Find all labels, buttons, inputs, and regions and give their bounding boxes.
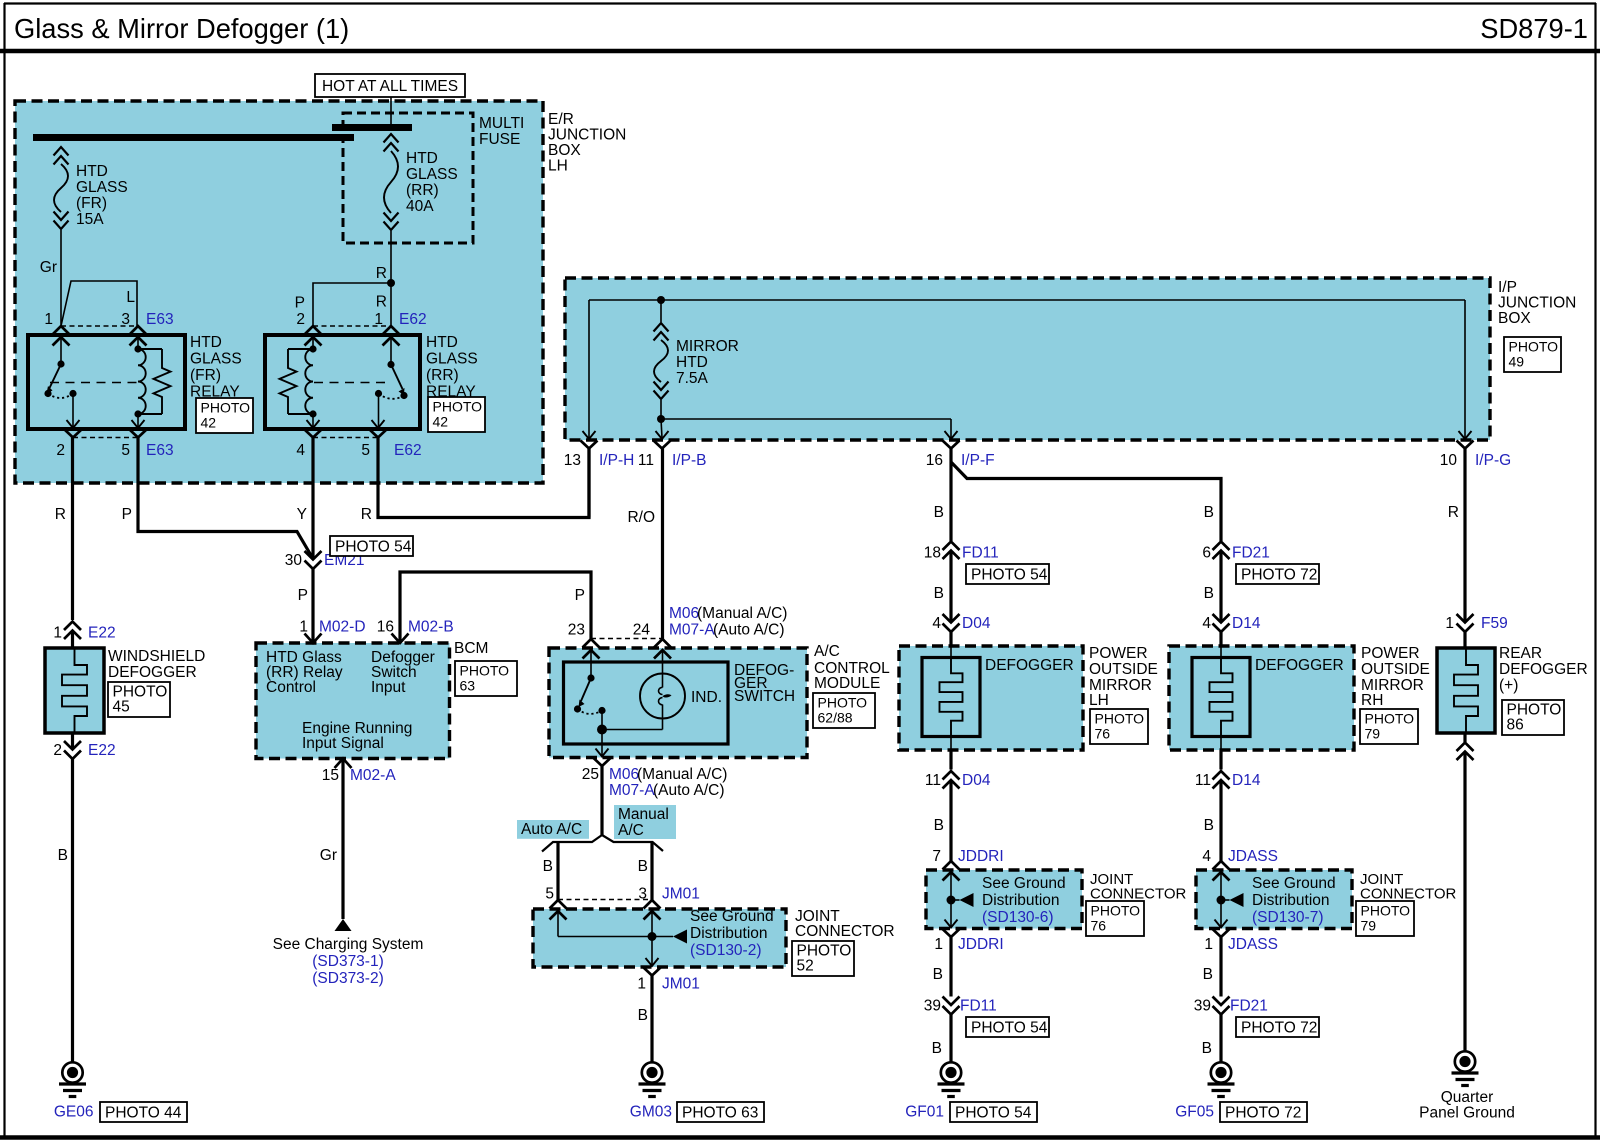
svg-text:39: 39 <box>1194 998 1211 1015</box>
svg-text:B: B <box>58 847 68 864</box>
svg-text:Distribution: Distribution <box>690 925 768 942</box>
svg-text:M02-D: M02-D <box>319 619 366 636</box>
svg-text:R: R <box>376 265 387 282</box>
svg-text:E22: E22 <box>88 625 116 642</box>
svg-text:GLASS: GLASS <box>190 351 242 368</box>
svg-text:PHOTO: PHOTO <box>460 663 510 679</box>
svg-text:Distribution: Distribution <box>982 892 1060 909</box>
svg-text:DEFOGGER: DEFOGGER <box>1255 657 1344 674</box>
svg-text:PHOTO 63: PHOTO 63 <box>682 1105 758 1122</box>
svg-text:(RR): (RR) <box>406 182 439 199</box>
svg-text:(SD373-1): (SD373-1) <box>312 953 384 970</box>
svg-text:M07-A: M07-A <box>609 782 655 799</box>
svg-text:5: 5 <box>121 442 130 459</box>
svg-text:52: 52 <box>797 958 814 975</box>
svg-text:PHOTO 54: PHOTO 54 <box>971 567 1048 584</box>
svg-text:PHOTO: PHOTO <box>818 695 868 711</box>
svg-text:PHOTO 72: PHOTO 72 <box>1225 1105 1301 1122</box>
svg-text:39: 39 <box>924 998 941 1015</box>
svg-text:PHOTO 54: PHOTO 54 <box>955 1105 1032 1122</box>
svg-text:1: 1 <box>299 619 308 636</box>
svg-text:CONNECTOR: CONNECTOR <box>795 923 895 940</box>
svg-text:(Auto A/C): (Auto A/C) <box>653 782 725 799</box>
svg-text:JDDRI: JDDRI <box>958 848 1004 865</box>
svg-text:2: 2 <box>56 442 65 459</box>
svg-text:1: 1 <box>1445 615 1454 632</box>
svg-text:P: P <box>575 587 585 604</box>
svg-text:PHOTO 54: PHOTO 54 <box>335 539 412 556</box>
svg-text:F59: F59 <box>1481 615 1508 632</box>
svg-text:POWER: POWER <box>1361 645 1420 662</box>
svg-text:B: B <box>638 858 648 875</box>
svg-text:PHOTO 44: PHOTO 44 <box>105 1105 182 1122</box>
svg-text:LH: LH <box>548 158 568 175</box>
svg-text:E62: E62 <box>399 311 427 328</box>
svg-text:1: 1 <box>53 625 62 642</box>
svg-text:GE06: GE06 <box>54 1104 94 1121</box>
svg-text:16: 16 <box>926 452 943 469</box>
svg-text:Distribution: Distribution <box>1252 892 1330 909</box>
svg-text:5: 5 <box>545 886 554 903</box>
svg-text:HTD: HTD <box>406 150 438 167</box>
svg-text:See Ground: See Ground <box>1252 875 1336 892</box>
svg-text:R: R <box>1448 504 1459 521</box>
svg-text:Glass & Mirror Defogger (1): Glass & Mirror Defogger (1) <box>14 13 349 44</box>
svg-text:Quarter: Quarter <box>1441 1089 1494 1106</box>
svg-text:BCM: BCM <box>454 640 488 657</box>
svg-text:POWER: POWER <box>1089 645 1148 662</box>
svg-text:79: 79 <box>1361 918 1377 934</box>
svg-text:DEFOGGER: DEFOGGER <box>1499 661 1588 678</box>
svg-text:(SD130-7): (SD130-7) <box>1252 909 1324 926</box>
svg-text:4: 4 <box>1202 615 1211 632</box>
svg-text:Auto A/C: Auto A/C <box>521 821 582 838</box>
svg-text:FD11: FD11 <box>960 998 997 1015</box>
svg-text:D04: D04 <box>962 615 991 632</box>
svg-text:GM03: GM03 <box>630 1104 672 1121</box>
svg-text:(FR): (FR) <box>76 195 107 212</box>
svg-text:PHOTO 54: PHOTO 54 <box>971 1020 1048 1037</box>
svg-text:B: B <box>1204 504 1214 521</box>
svg-text:JUNCTION: JUNCTION <box>548 127 626 144</box>
svg-text:GLASS: GLASS <box>426 351 478 368</box>
svg-text:HTD: HTD <box>76 163 108 180</box>
svg-text:Y: Y <box>297 506 307 523</box>
svg-text:I/P: I/P <box>1498 279 1517 296</box>
svg-text:CONNECTOR: CONNECTOR <box>1090 886 1187 903</box>
svg-text:1: 1 <box>1204 936 1213 953</box>
svg-text:Manual: Manual <box>618 806 669 823</box>
svg-text:4: 4 <box>296 442 305 459</box>
svg-text:B: B <box>543 858 553 875</box>
svg-text:LH: LH <box>1089 692 1109 709</box>
svg-text:JDDRI: JDDRI <box>958 936 1004 953</box>
svg-text:I/P-G: I/P-G <box>1475 452 1511 469</box>
svg-text:HTD: HTD <box>190 334 222 351</box>
svg-text:M07-A: M07-A <box>669 622 715 639</box>
svg-text:MULTI: MULTI <box>479 115 524 132</box>
svg-text:Control: Control <box>266 679 316 696</box>
svg-text:M06: M06 <box>609 766 639 783</box>
svg-text:BOX: BOX <box>1498 310 1531 327</box>
svg-text:HTD: HTD <box>426 334 458 351</box>
svg-text:WINDSHIELD: WINDSHIELD <box>108 648 205 665</box>
svg-text:R: R <box>361 506 372 523</box>
svg-text:FD11: FD11 <box>962 545 999 562</box>
svg-text:PHOTO 72: PHOTO 72 <box>1241 1020 1317 1037</box>
svg-text:PHOTO: PHOTO <box>1365 711 1415 727</box>
svg-text:GF05: GF05 <box>1175 1104 1214 1121</box>
svg-text:(SD130-2): (SD130-2) <box>690 942 762 959</box>
svg-text:2: 2 <box>53 742 62 759</box>
svg-text:3: 3 <box>121 311 130 328</box>
svg-text:PHOTO 72: PHOTO 72 <box>1241 567 1317 584</box>
svg-text:E63: E63 <box>146 442 174 459</box>
svg-text:13: 13 <box>564 452 581 469</box>
svg-text:MIRROR: MIRROR <box>676 338 739 355</box>
svg-text:40A: 40A <box>406 198 434 215</box>
svg-text:M02-A: M02-A <box>350 767 396 784</box>
svg-text:2: 2 <box>296 311 305 328</box>
svg-text:DEFOGGER: DEFOGGER <box>985 657 1074 674</box>
svg-text:E22: E22 <box>88 742 116 759</box>
svg-text:JDASS: JDASS <box>1228 848 1278 865</box>
svg-text:(Manual A/C): (Manual A/C) <box>637 766 727 783</box>
svg-text:SD879-1: SD879-1 <box>1480 13 1588 44</box>
svg-text:76: 76 <box>1091 918 1107 934</box>
svg-text:P: P <box>298 587 308 604</box>
svg-text:(SD373-2): (SD373-2) <box>312 970 384 987</box>
svg-text:See Ground: See Ground <box>690 908 774 925</box>
svg-text:(Auto A/C): (Auto A/C) <box>713 622 785 639</box>
svg-text:16: 16 <box>377 619 394 636</box>
svg-text:HTD: HTD <box>676 354 708 371</box>
svg-text:PHOTO: PHOTO <box>1361 903 1411 919</box>
svg-text:49: 49 <box>1509 354 1525 370</box>
svg-text:(RR): (RR) <box>426 367 459 384</box>
svg-text:B: B <box>1204 585 1214 602</box>
svg-text:BOX: BOX <box>548 142 581 159</box>
svg-text:M02-B: M02-B <box>408 619 454 636</box>
svg-text:R: R <box>55 506 66 523</box>
svg-text:See Charging System: See Charging System <box>273 936 424 953</box>
svg-text:SWITCH: SWITCH <box>734 688 795 705</box>
svg-text:I/P-F: I/P-F <box>961 452 995 469</box>
svg-text:P: P <box>295 295 305 312</box>
svg-text:B: B <box>934 504 944 521</box>
svg-text:76: 76 <box>1095 726 1111 742</box>
svg-text:(SD130-6): (SD130-6) <box>982 909 1054 926</box>
svg-text:P: P <box>122 506 132 523</box>
svg-text:GLASS: GLASS <box>406 166 458 183</box>
svg-text:IND.: IND. <box>691 689 722 706</box>
svg-text:1: 1 <box>374 311 383 328</box>
svg-text:E/R: E/R <box>548 111 574 128</box>
svg-text:4: 4 <box>1202 848 1211 865</box>
svg-text:CONNECTOR: CONNECTOR <box>1360 886 1457 903</box>
svg-text:E63: E63 <box>146 311 174 328</box>
svg-text:FD21: FD21 <box>1232 545 1270 562</box>
svg-text:M06: M06 <box>669 605 699 622</box>
svg-text:4: 4 <box>932 615 941 632</box>
svg-text:(FR): (FR) <box>190 367 221 384</box>
svg-text:JM01: JM01 <box>662 976 700 993</box>
svg-text:JUNCTION: JUNCTION <box>1498 295 1576 312</box>
svg-text:24: 24 <box>633 622 651 639</box>
svg-text:HOT AT ALL TIMES: HOT AT ALL TIMES <box>322 78 458 95</box>
svg-text:PHOTO: PHOTO <box>433 399 483 415</box>
svg-text:REAR: REAR <box>1499 645 1542 662</box>
svg-text:62/88: 62/88 <box>818 710 853 726</box>
svg-text:7.5A: 7.5A <box>676 370 709 387</box>
svg-text:86: 86 <box>1507 717 1524 734</box>
svg-text:RH: RH <box>1361 692 1383 709</box>
svg-text:1: 1 <box>934 936 943 953</box>
svg-text:OUTSIDE: OUTSIDE <box>1089 661 1158 678</box>
svg-text:23: 23 <box>568 622 585 639</box>
svg-text:PHOTO: PHOTO <box>1509 339 1559 355</box>
svg-text:B: B <box>932 1040 942 1057</box>
svg-text:B: B <box>1202 1040 1212 1057</box>
svg-text:A/C: A/C <box>618 822 644 839</box>
svg-text:5: 5 <box>361 442 370 459</box>
svg-text:Gr: Gr <box>40 259 57 276</box>
svg-text:GF01: GF01 <box>905 1104 944 1121</box>
svg-text:15A: 15A <box>76 211 104 228</box>
svg-text:(+): (+) <box>1499 677 1518 694</box>
svg-text:R/O: R/O <box>627 509 655 526</box>
svg-text:1: 1 <box>44 311 53 328</box>
svg-text:25: 25 <box>582 766 599 783</box>
svg-text:10: 10 <box>1440 452 1458 469</box>
svg-text:7: 7 <box>932 848 941 865</box>
svg-text:Panel Ground: Panel Ground <box>1419 1105 1515 1122</box>
svg-text:JM01: JM01 <box>662 886 700 903</box>
svg-text:D14: D14 <box>1232 615 1261 632</box>
svg-text:GLASS: GLASS <box>76 179 128 196</box>
svg-text:1: 1 <box>637 976 646 993</box>
svg-text:18: 18 <box>924 545 941 562</box>
svg-text:See Ground: See Ground <box>982 875 1066 892</box>
svg-text:B: B <box>1204 817 1214 834</box>
svg-text:11: 11 <box>638 452 654 469</box>
svg-text:JDASS: JDASS <box>1228 936 1278 953</box>
svg-text:11: 11 <box>925 772 941 789</box>
svg-text:3: 3 <box>638 886 647 903</box>
svg-text:45: 45 <box>113 699 130 716</box>
svg-text:Input: Input <box>371 679 406 696</box>
svg-text:FD21: FD21 <box>1230 998 1268 1015</box>
svg-text:L: L <box>126 289 135 306</box>
svg-text:OUTSIDE: OUTSIDE <box>1361 661 1430 678</box>
svg-text:A/C: A/C <box>814 643 840 660</box>
svg-text:I/P-H: I/P-H <box>599 452 634 469</box>
svg-text:MODULE: MODULE <box>814 675 880 692</box>
svg-text:42: 42 <box>201 415 217 431</box>
svg-text:PHOTO: PHOTO <box>1095 711 1145 727</box>
svg-text:PHOTO: PHOTO <box>201 400 251 416</box>
svg-text:B: B <box>934 585 944 602</box>
svg-text:63: 63 <box>460 678 476 694</box>
svg-text:15: 15 <box>322 767 339 784</box>
svg-text:D04: D04 <box>962 772 991 789</box>
svg-text:I/P-B: I/P-B <box>672 452 706 469</box>
svg-text:FUSE: FUSE <box>479 131 520 148</box>
svg-text:Input Signal: Input Signal <box>302 735 384 752</box>
svg-text:(Manual A/C): (Manual A/C) <box>697 605 787 622</box>
svg-text:Gr: Gr <box>320 847 337 864</box>
svg-text:79: 79 <box>1365 726 1381 742</box>
svg-text:DEFOGGER: DEFOGGER <box>108 664 197 681</box>
svg-text:E62: E62 <box>394 442 422 459</box>
svg-text:D14: D14 <box>1232 772 1261 789</box>
svg-text:30: 30 <box>285 552 303 569</box>
svg-text:B: B <box>1203 966 1213 983</box>
svg-text:42: 42 <box>433 414 449 430</box>
svg-text:11: 11 <box>1195 772 1211 789</box>
svg-text:6: 6 <box>1202 545 1211 562</box>
svg-text:B: B <box>638 1007 648 1024</box>
svg-text:B: B <box>933 966 943 983</box>
svg-text:R: R <box>376 294 387 311</box>
svg-text:PHOTO: PHOTO <box>1091 903 1141 919</box>
svg-text:B: B <box>934 817 944 834</box>
